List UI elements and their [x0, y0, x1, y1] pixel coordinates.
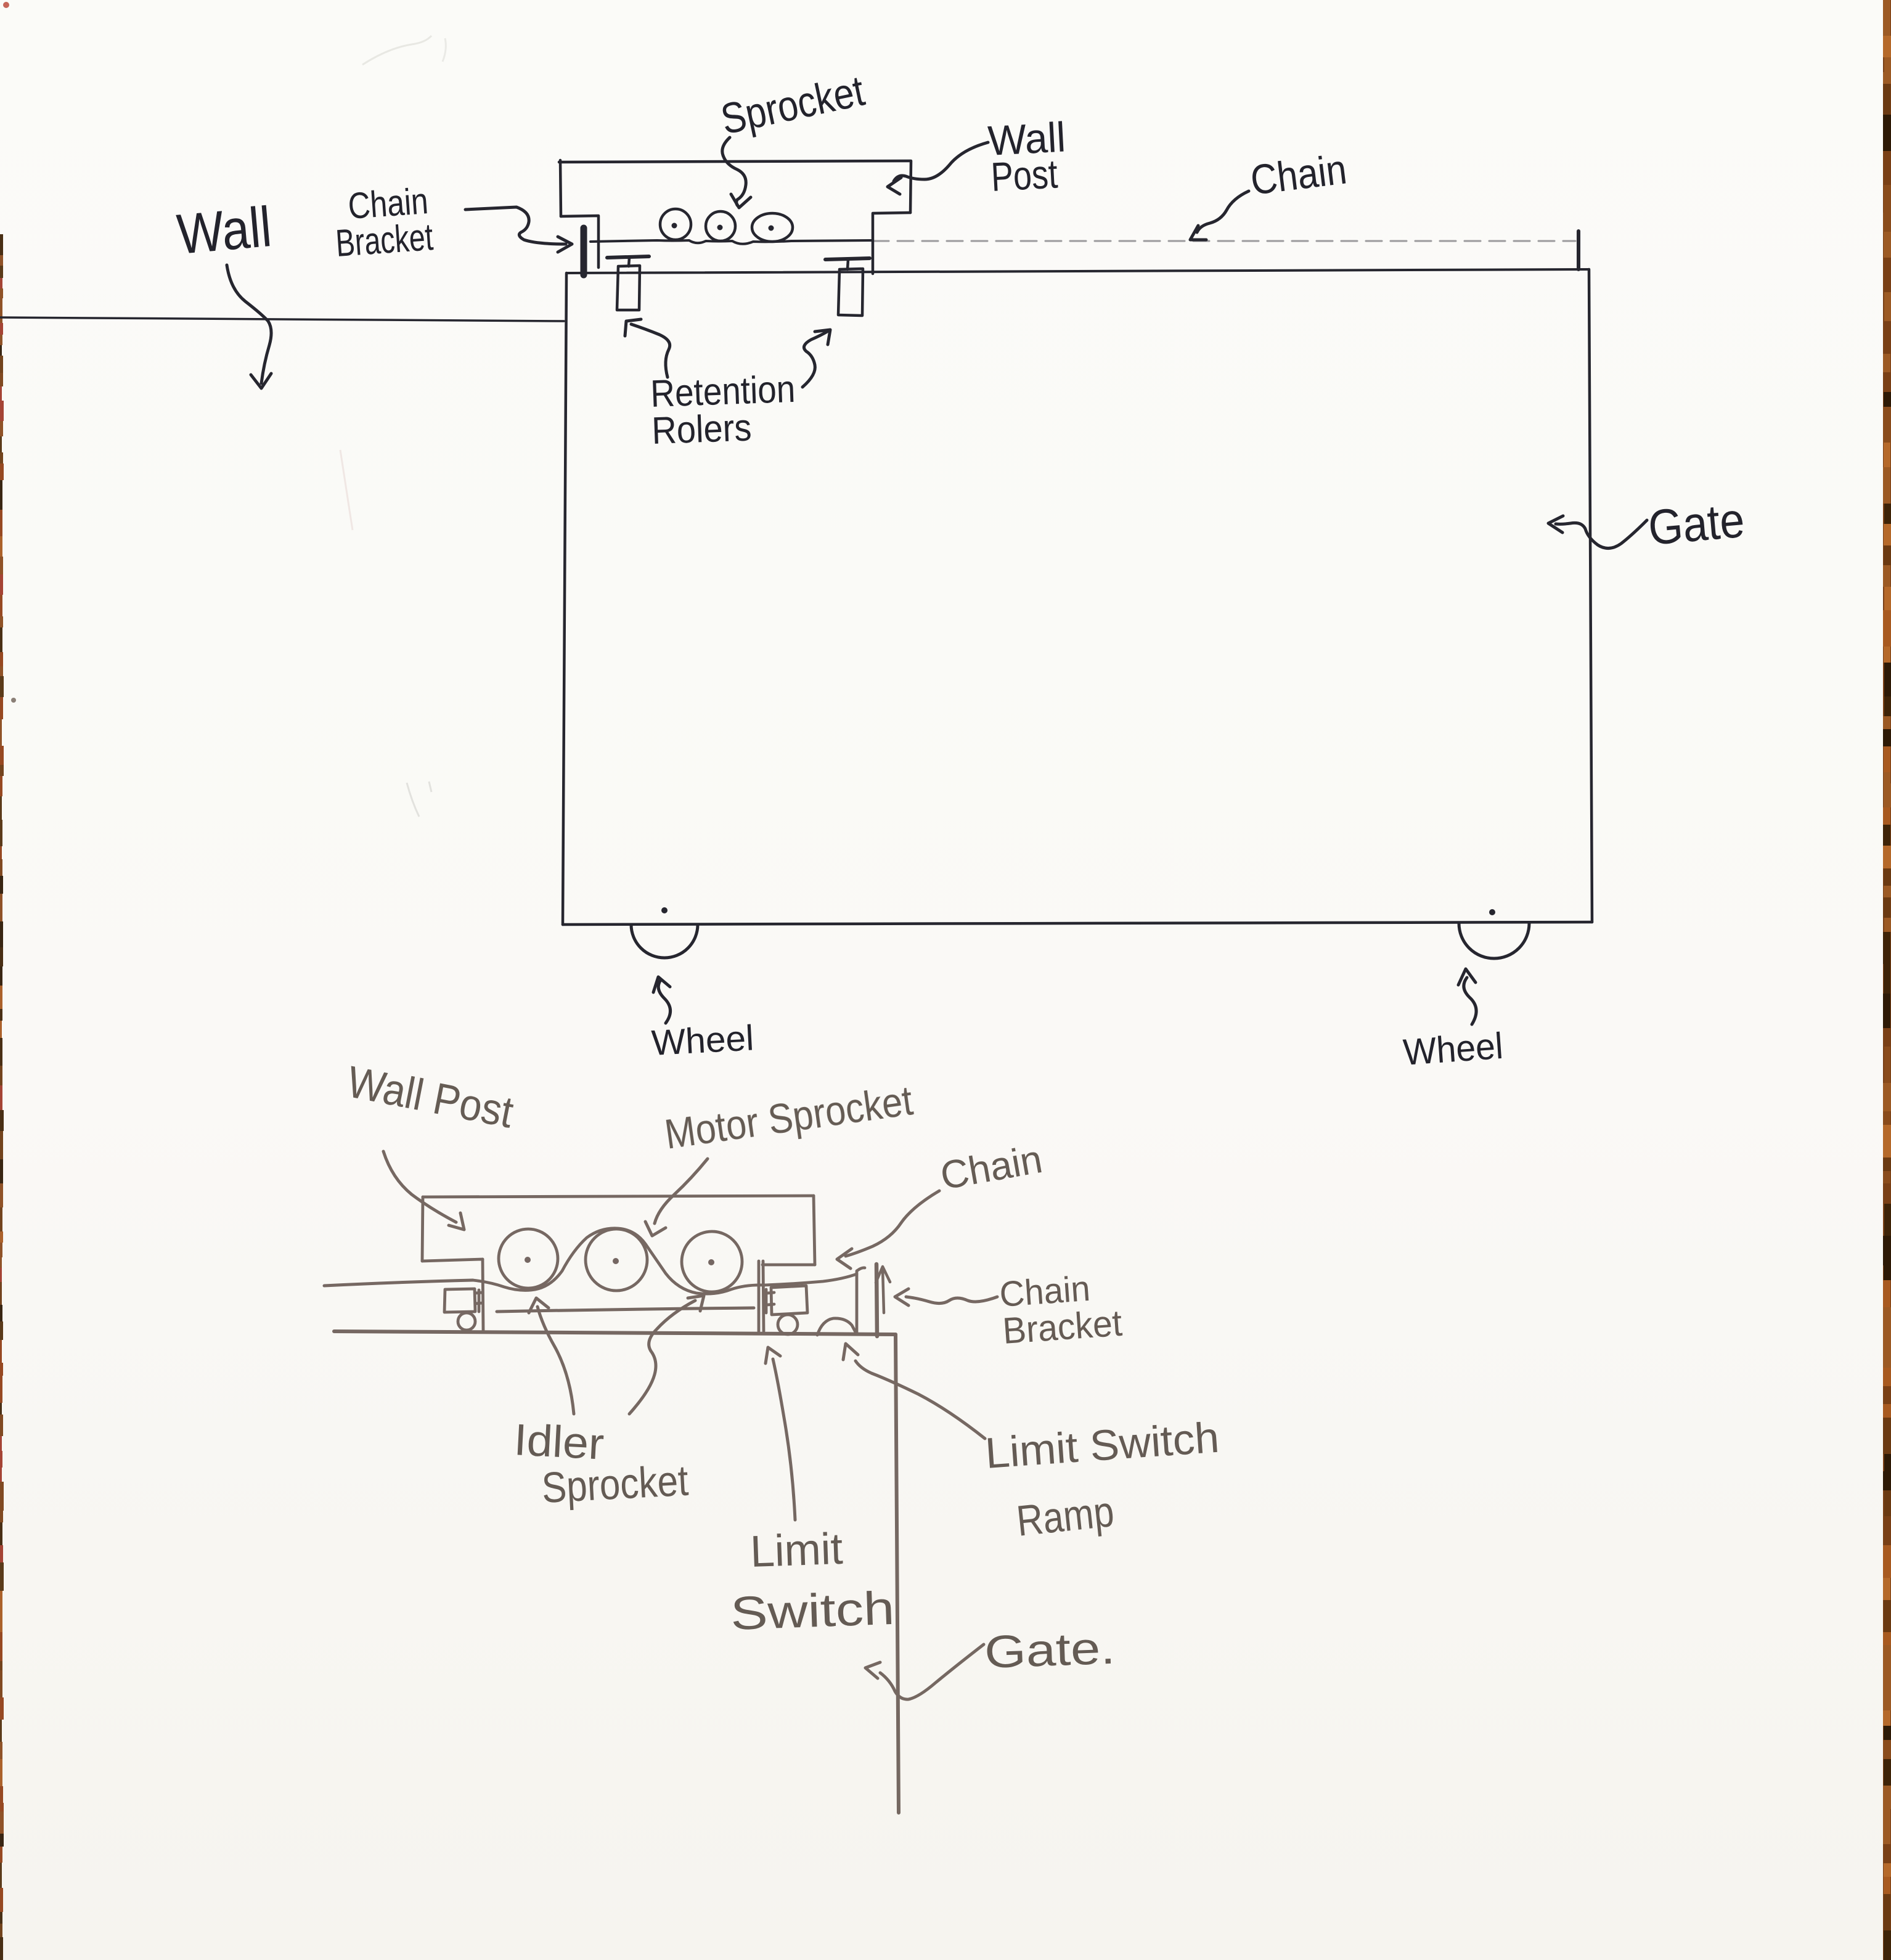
wall post label arrow (bottom)	[383, 1151, 464, 1230]
sprocket M3 (idler)	[682, 1231, 742, 1292]
right edge table strip	[1883, 0, 1891, 1960]
motor sprocket M2 (motor)	[586, 1229, 647, 1291]
wheel 1 arrow	[653, 977, 671, 1023]
wall label arrow	[227, 265, 271, 388]
wall line (bottom)	[324, 1280, 473, 1286]
rail line under sprockets	[497, 1308, 754, 1312]
sprocket S3	[752, 213, 793, 242]
idler arrow 2	[629, 1296, 704, 1414]
chain bracket label arrow	[465, 207, 572, 252]
motor sprocket M1 (idler)	[499, 1229, 558, 1288]
svg-text:Post: Post	[990, 150, 1059, 200]
svg-text:Limit: Limit	[749, 1524, 844, 1577]
svg-text:Bracket: Bracket	[1002, 1302, 1124, 1352]
retention roller 2	[825, 258, 870, 259]
idler arrow 1	[529, 1298, 574, 1414]
retention label arrow right	[803, 330, 830, 387]
limit switch ramp (bump on gate line)	[817, 1318, 857, 1335]
limit switch double post	[759, 1261, 764, 1331]
svg-text:Gate: Gate	[1646, 492, 1747, 555]
chain (top, faint run to end)	[873, 240, 1575, 242]
wheel 1	[631, 925, 698, 958]
ramp side post	[857, 1268, 865, 1334]
svg-text:Switch: Switch	[730, 1582, 896, 1640]
svg-text:Rolers: Rolers	[651, 406, 752, 452]
motor sprocket label arrow	[645, 1159, 708, 1236]
TOP DIAGRAM	[0, 67, 1747, 1073]
limit switch roller	[778, 1315, 798, 1334]
wall line	[0, 317, 564, 321]
chain label arrow (bottom)	[837, 1191, 939, 1268]
sprocket S2	[706, 211, 735, 241]
chain label arrow	[1190, 191, 1249, 240]
chain bracket (top)	[581, 228, 587, 275]
gate label arrow	[1548, 516, 1647, 549]
chain weave (bottom)	[473, 1228, 857, 1294]
sprocket label arrow	[722, 137, 751, 208]
svg-text:Wall: Wall	[174, 195, 274, 266]
limit switch box	[771, 1286, 807, 1315]
gate vertical line (bottom diagram)	[896, 1334, 899, 1813]
wheel 2 arrow	[1458, 969, 1476, 1024]
BOTTOM DIAGRAM	[324, 1057, 1220, 1813]
faint scuffs	[340, 36, 446, 817]
chain bracket label arrow (bottom)	[895, 1289, 997, 1305]
limit switch ramp label arrow	[843, 1344, 985, 1439]
retention roller 1	[607, 256, 649, 258]
left edge strip	[0, 2, 16, 1960]
wall post (top)	[559, 161, 911, 162]
chain (top, solid run)	[590, 240, 873, 244]
svg-text:Ramp: Ramp	[1015, 1487, 1116, 1545]
gate (top diagram rectangle)	[567, 269, 1589, 273]
gate label arrow (bottom)	[865, 1644, 984, 1699]
svg-text:Sprocket: Sprocket	[541, 1456, 690, 1512]
sprocket S1	[660, 209, 691, 240]
limit switch label arrow	[766, 1347, 795, 1520]
chain bracket up arrow	[876, 1267, 890, 1313]
svg-text:Bracket: Bracket	[334, 216, 434, 265]
chain end tick	[1577, 231, 1580, 269]
chain bracket bar (bottom)	[876, 1264, 877, 1336]
gate top line (bottom diagram)	[334, 1331, 896, 1334]
wall post label arrow	[888, 142, 988, 194]
svg-text:Wheel: Wheel	[1402, 1025, 1504, 1073]
wheel 2	[1459, 923, 1529, 958]
svg-text:Wheel: Wheel	[650, 1018, 754, 1063]
svg-text:Gate.: Gate.	[984, 1622, 1116, 1678]
wall post (bottom)	[423, 1196, 814, 1197]
left roller bracket	[444, 1289, 475, 1312]
retention label arrow left	[625, 319, 670, 377]
